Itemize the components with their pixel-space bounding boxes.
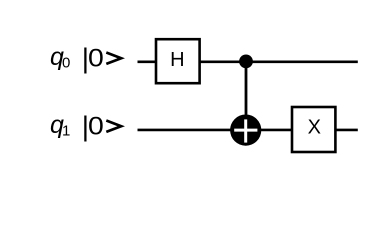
svg-text:H: H [170,49,184,71]
svg-text:0: 0 [62,54,70,71]
svg-text:X: X [308,117,321,139]
svg-text:0: 0 [88,45,104,73]
svg-text:0: 0 [88,113,104,141]
svg-text:1: 1 [62,122,70,139]
